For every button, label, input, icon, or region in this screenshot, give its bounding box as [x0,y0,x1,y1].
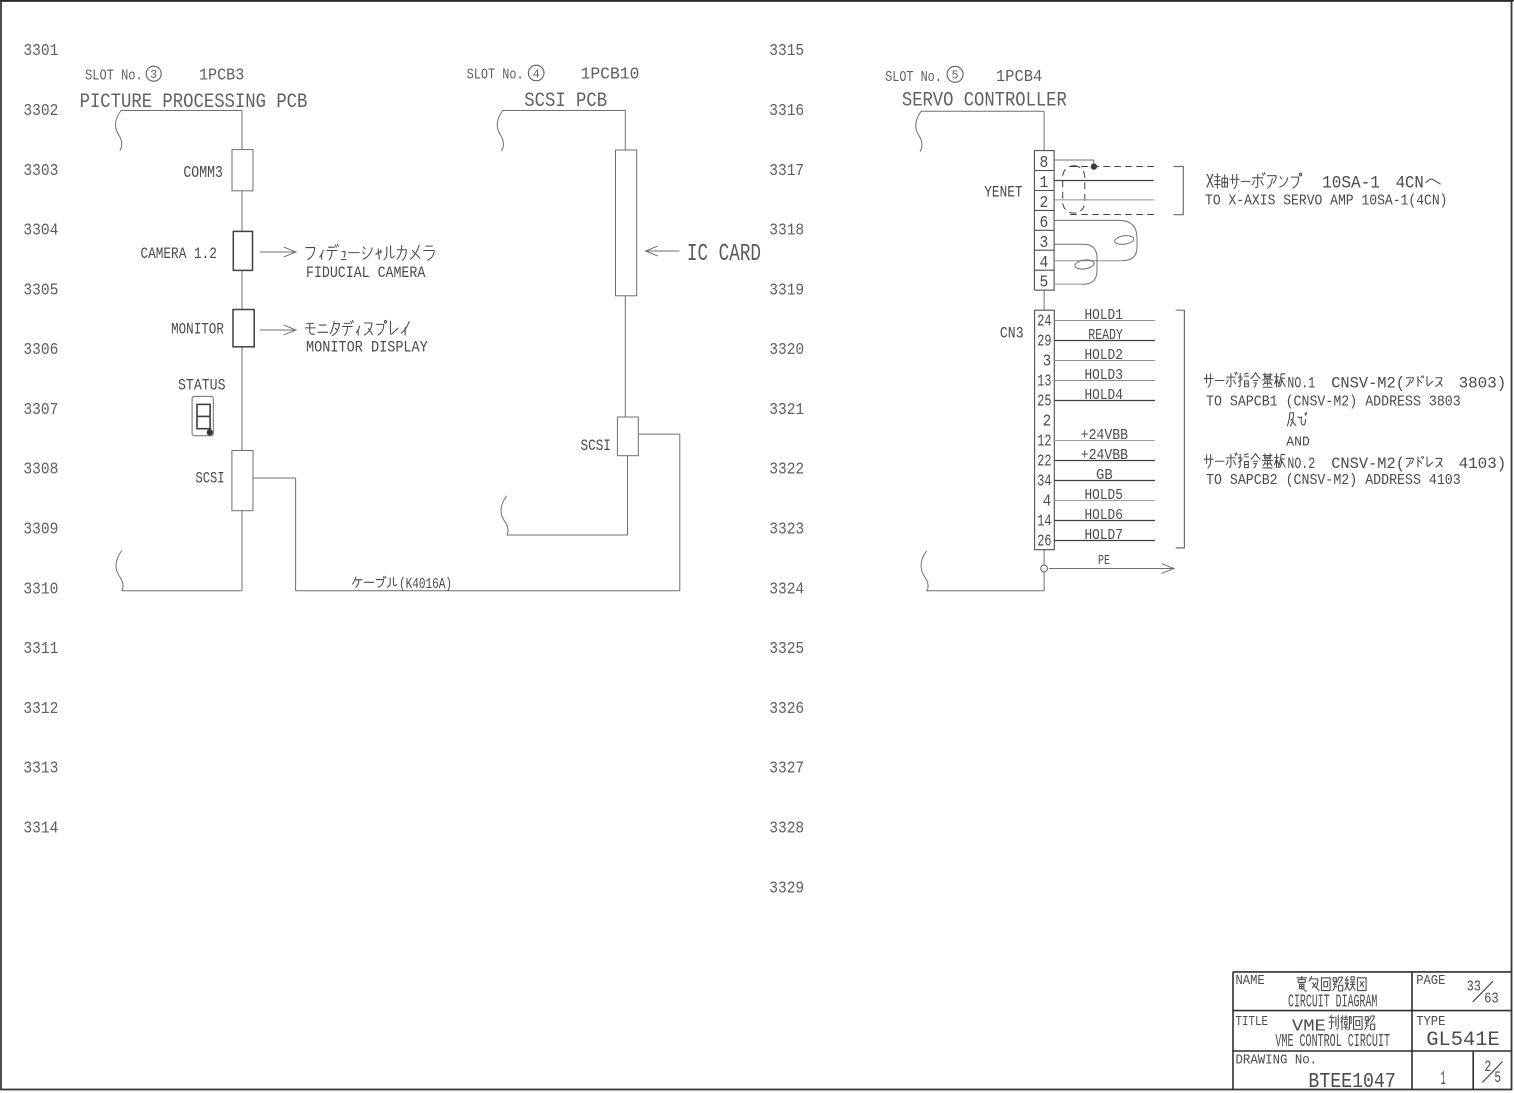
svg-text:5: 5 [952,70,959,83]
svg-text:1: 1 [1040,174,1049,193]
svg-text:HOLD2: HOLD2 [1085,347,1123,364]
svg-text:4: 4 [1043,492,1051,511]
svg-text:TO X-AXIS SERVO AMP 10SA-1(4CN: TO X-AXIS SERVO AMP 10SA-1(4CN) [1205,193,1448,209]
svg-text:3324: 3324 [769,579,804,598]
svg-text:3309: 3309 [23,520,58,539]
svg-text:HOLD7: HOLD7 [1085,527,1123,544]
svg-text:COMM3: COMM3 [183,164,223,183]
svg-text:14: 14 [1037,512,1051,531]
svg-text:3322: 3322 [769,460,804,479]
svg-text:3304: 3304 [23,221,58,240]
svg-text:VME CONTROL CIRCUIT: VME CONTROL CIRCUIT [1275,1032,1390,1052]
svg-text:3328: 3328 [769,819,804,838]
svg-text:SLOT No.: SLOT No. [885,69,942,86]
svg-text:SCSI: SCSI [196,470,225,488]
svg-text:12: 12 [1037,432,1051,451]
svg-text:3: 3 [150,69,157,82]
svg-text:CAMERA 1.2: CAMERA 1.2 [141,245,217,263]
svg-text:3326: 3326 [769,699,804,718]
svg-text:CN3: CN3 [1000,325,1024,343]
svg-text:NAME: NAME [1236,973,1265,989]
svg-text:24: 24 [1037,312,1051,331]
svg-text:STATUS: STATUS [178,377,226,395]
svg-text:HOLD4: HOLD4 [1085,387,1123,404]
svg-text:3: 3 [1043,352,1051,371]
svg-text:3315: 3315 [769,41,804,60]
svg-text:4CN: 4CN [1396,174,1424,194]
svg-text:SCSI PCB: SCSI PCB [524,90,607,113]
svg-text:3307: 3307 [23,400,58,419]
svg-text:3327: 3327 [769,759,804,778]
svg-text:2: 2 [1040,194,1049,213]
svg-text:BTEE1047: BTEE1047 [1308,1071,1395,1093]
svg-text:GB: GB [1096,467,1113,484]
svg-text:3320: 3320 [769,340,804,359]
svg-text:TITLE: TITLE [1236,1014,1269,1030]
svg-text:29: 29 [1037,332,1051,351]
svg-text:1PCB10: 1PCB10 [581,66,640,85]
svg-text:SERVO CONTROLLER: SERVO CONTROLLER [902,90,1067,113]
svg-text:3325: 3325 [769,639,804,658]
svg-text:8: 8 [1040,154,1049,173]
svg-text:3305: 3305 [23,280,58,299]
svg-text:3313: 3313 [23,759,58,778]
svg-text:CNSV-M2(: CNSV-M2( [1331,374,1405,392]
svg-text:3314: 3314 [23,819,58,838]
svg-text:+24VBB: +24VBB [1081,447,1128,464]
svg-text:NO.1: NO.1 [1287,374,1315,392]
svg-text:6: 6 [1040,214,1049,233]
svg-text:3310: 3310 [23,579,58,598]
svg-text:2: 2 [1043,412,1051,431]
svg-text:(K4016A): (K4016A) [399,576,452,593]
svg-text:X: X [1206,172,1214,195]
svg-text:3316: 3316 [769,101,804,120]
svg-text:SCSI: SCSI [581,437,611,455]
svg-text:HOLD1: HOLD1 [1085,307,1123,324]
svg-text:63: 63 [1484,991,1498,1008]
svg-text:HOLD3: HOLD3 [1085,367,1123,384]
svg-text:3312: 3312 [23,699,58,718]
svg-text:+24VBB: +24VBB [1081,427,1128,444]
svg-text:1PCB4: 1PCB4 [996,68,1042,87]
svg-text:HOLD6: HOLD6 [1085,507,1123,524]
svg-text:CIRCUIT DIAGRAM: CIRCUIT DIAGRAM [1288,992,1377,1012]
svg-text:3329: 3329 [769,878,804,897]
svg-text:34: 34 [1037,472,1051,491]
svg-text:3318: 3318 [769,221,804,240]
svg-text:SLOT No.: SLOT No. [467,67,524,84]
svg-text:3306: 3306 [23,340,58,359]
svg-text:3: 3 [1040,234,1049,253]
svg-text:FIDUCIAL CAMERA: FIDUCIAL CAMERA [306,264,426,282]
svg-text:3321: 3321 [769,400,804,419]
svg-text:NO.2: NO.2 [1287,455,1315,473]
svg-text:GL541E: GL541E [1426,1029,1500,1052]
svg-text:1: 1 [1441,1068,1446,1090]
svg-text:5: 5 [1040,274,1049,293]
svg-text:13: 13 [1037,372,1051,391]
svg-text:3317: 3317 [769,161,804,180]
svg-text:YENET: YENET [984,184,1022,202]
svg-text:1PCB3: 1PCB3 [199,67,244,86]
svg-text:26: 26 [1037,532,1051,551]
svg-text:5: 5 [1494,1069,1501,1087]
svg-text:25: 25 [1037,392,1051,411]
svg-text:TYPE: TYPE [1416,1014,1445,1030]
svg-text:TO SAPCB1 (CNSV-M2) ADDRESS 38: TO SAPCB1 (CNSV-M2) ADDRESS 3803 [1206,393,1461,410]
svg-text:CNSV-M2(: CNSV-M2( [1331,455,1405,473]
svg-text:33: 33 [1467,979,1481,996]
svg-text:3302: 3302 [23,101,58,120]
svg-text:3319: 3319 [769,280,804,299]
svg-text:3311: 3311 [23,639,58,658]
svg-text:22: 22 [1037,452,1051,471]
svg-text:PAGE: PAGE [1416,973,1445,989]
svg-text:MONITOR: MONITOR [171,321,224,339]
svg-text:PE: PE [1098,554,1110,569]
svg-text:10SA-1: 10SA-1 [1322,174,1380,194]
svg-text:3303: 3303 [23,161,58,180]
svg-text:TO SAPCB2 (CNSV-M2) ADDRESS 41: TO SAPCB2 (CNSV-M2) ADDRESS 4103 [1206,472,1461,489]
svg-text:3323: 3323 [769,520,804,539]
svg-text:3308: 3308 [23,460,58,479]
svg-text:4103): 4103) [1459,455,1507,473]
svg-text:READY: READY [1088,327,1123,344]
svg-text:DRAWING No.: DRAWING No. [1236,1053,1318,1069]
svg-text:3803): 3803) [1459,374,1507,392]
svg-text:2: 2 [1484,1058,1491,1076]
svg-text:4: 4 [533,68,540,81]
svg-text:4: 4 [1040,254,1049,273]
svg-text:3301: 3301 [23,41,58,60]
svg-text:HOLD5: HOLD5 [1085,487,1123,504]
svg-text:SLOT No.: SLOT No. [85,68,143,85]
svg-text:MONITOR DISPLAY: MONITOR DISPLAY [306,338,428,356]
svg-text:IC CARD: IC CARD [687,241,761,268]
svg-text:AND: AND [1286,436,1310,451]
